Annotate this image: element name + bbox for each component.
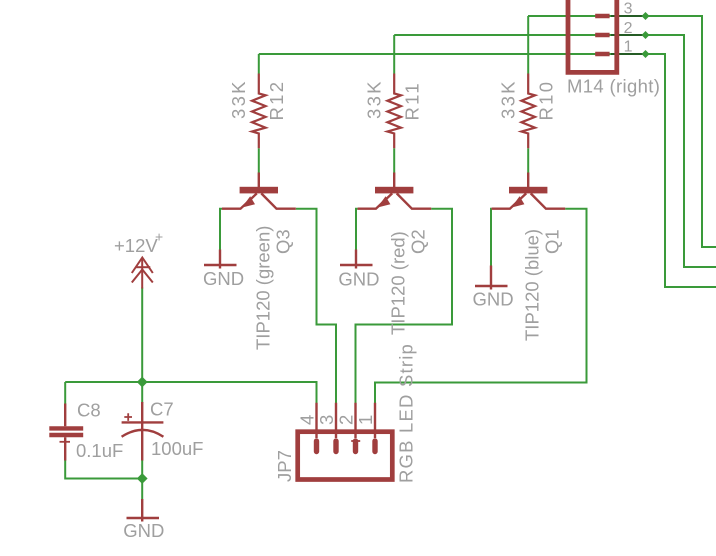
svg-text:0.1uF: 0.1uF (76, 440, 123, 461)
svg-text:TIP120 (green): TIP120 (green) (252, 226, 273, 350)
svg-text:GND: GND (473, 289, 514, 310)
svg-text:RGB LED Strip: RGB LED Strip (396, 343, 417, 483)
svg-text:JP7: JP7 (274, 450, 295, 482)
svg-text:R12: R12 (266, 80, 287, 121)
svg-text:R10: R10 (535, 80, 556, 121)
svg-text:33K: 33K (228, 79, 249, 119)
svg-text:Q1: Q1 (542, 229, 563, 254)
svg-text:4: 4 (297, 415, 318, 425)
svg-text:GND: GND (123, 520, 164, 541)
svg-text:TIP120 (blue): TIP120 (blue) (522, 229, 543, 341)
svg-text:33K: 33K (498, 79, 519, 119)
svg-text:GND: GND (338, 269, 379, 290)
svg-text:TIP120 (red): TIP120 (red) (388, 231, 409, 335)
svg-text:+12V: +12V (114, 235, 158, 256)
svg-text:3: 3 (316, 415, 337, 425)
svg-text:Q2: Q2 (408, 229, 429, 254)
svg-text:R11: R11 (401, 81, 422, 120)
svg-text:C7: C7 (150, 399, 174, 420)
svg-text:M14 (right): M14 (right) (567, 75, 660, 96)
svg-text:Q3: Q3 (272, 229, 293, 254)
svg-text:2: 2 (624, 20, 633, 37)
svg-text:C8: C8 (77, 400, 101, 421)
svg-text:3: 3 (624, 1, 633, 18)
svg-text:2: 2 (336, 415, 357, 425)
svg-text:100uF: 100uF (151, 438, 203, 459)
svg-text:33K: 33K (364, 79, 385, 119)
svg-text:+: + (155, 229, 163, 245)
svg-text:1: 1 (624, 39, 633, 56)
svg-text:GND: GND (203, 268, 244, 289)
svg-text:1: 1 (355, 415, 376, 425)
